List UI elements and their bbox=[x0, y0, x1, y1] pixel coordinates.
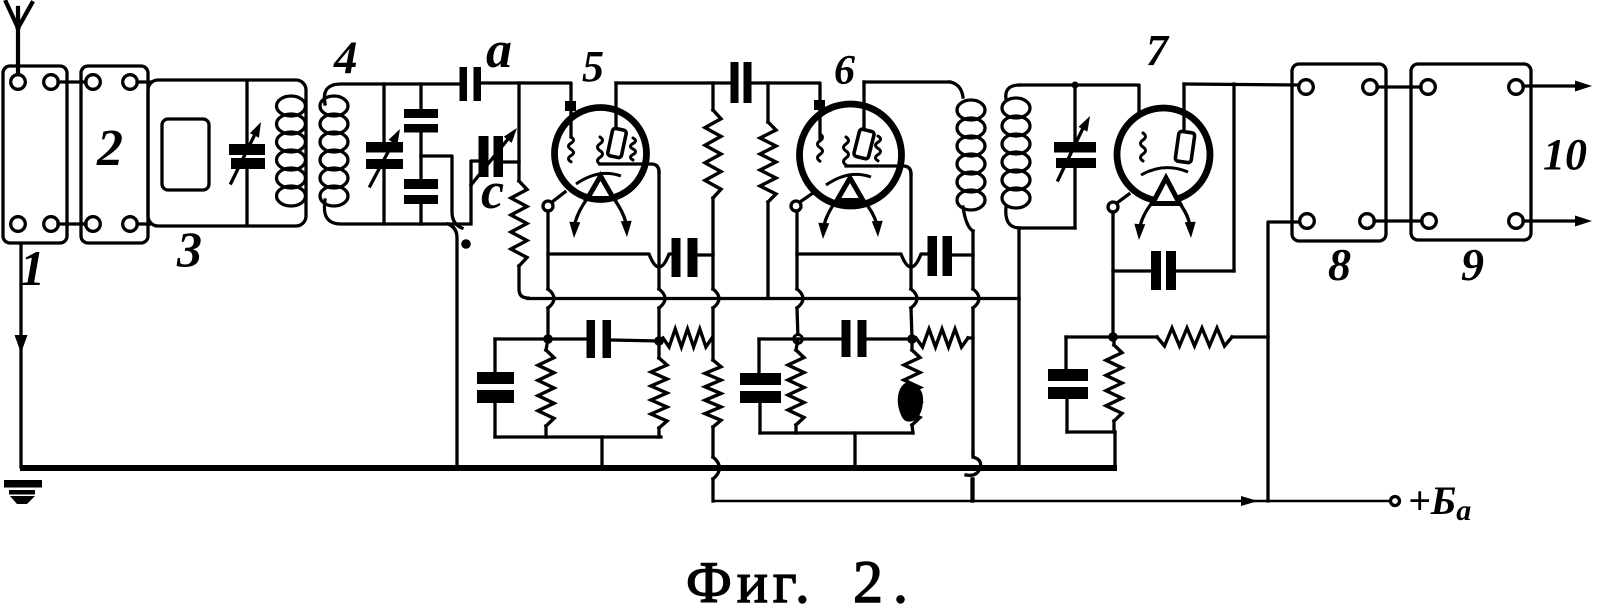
wire electrolytic 3 top lead bbox=[1064, 337, 1067, 369]
hop x659 over grid-return line bbox=[659, 289, 665, 308]
bias resistor R10 lead bbox=[1112, 337, 1115, 345]
wire bias line stage1 left bbox=[495, 337, 587, 340]
block 9 terminal top-right bbox=[1509, 80, 1524, 95]
plate load resistor R2 top lead bbox=[711, 83, 714, 110]
capacitor a right plate bbox=[474, 67, 482, 101]
secondary top rail bbox=[1020, 85, 1139, 116]
resistor R5 bottom lead bbox=[657, 428, 660, 437]
resistor R5 lead bbox=[657, 341, 660, 358]
wire primary return down bbox=[971, 231, 974, 289]
junction dot secondary top bbox=[1072, 82, 1079, 89]
wire grid line tap down bbox=[517, 83, 520, 181]
wire block2-block3 top bbox=[137, 80, 150, 83]
coupling capacitor C7 left plate bbox=[731, 62, 739, 103]
hop over grid-return line (x973) bbox=[973, 289, 979, 308]
capacitor C13 bottom plate bbox=[477, 390, 514, 403]
hop x713 over ground bus bbox=[713, 457, 720, 479]
variable capacitor C4 top plate bbox=[366, 142, 403, 153]
bypass capacitor C9 left plate bbox=[1151, 251, 1161, 290]
bypass capacitor C10 top plate bbox=[1048, 369, 1088, 381]
variable capacitor C4 arrow bbox=[370, 137, 396, 186]
wire primary return to +B bus bbox=[971, 479, 974, 501]
svg-text:9: 9 bbox=[1461, 239, 1484, 290]
svg-text:10: 10 bbox=[1543, 130, 1587, 179]
transformer secondary top lead bbox=[1006, 85, 1020, 99]
wire cathode tube6 down 2 bbox=[797, 308, 798, 339]
tube V6 middle electrode bbox=[844, 137, 849, 165]
output wire bottom bbox=[1523, 219, 1580, 222]
tube V6 plate lead out bbox=[846, 166, 911, 174]
tube V6 cathode terminal bbox=[791, 201, 801, 211]
tube V5 anode plate bbox=[607, 128, 627, 158]
wire variable capacitor branch block 3 top bbox=[245, 82, 248, 145]
wire anode branch tube5 down 2 bbox=[657, 308, 660, 341]
variable capacitor C8 arrow bbox=[1058, 124, 1085, 180]
wire cap c left lead bbox=[471, 161, 479, 222]
capacitor C16 top plate bbox=[740, 373, 781, 385]
coupling capacitor C12 left plate bbox=[587, 320, 596, 358]
block 9 terminal top-left bbox=[1421, 80, 1436, 95]
tube V5 filament leg left bbox=[575, 199, 588, 227]
tube V6 filament leg left bbox=[824, 201, 837, 228]
trimmer capacitor c left plate bbox=[479, 136, 489, 177]
capacitor C14 right plate bbox=[943, 236, 953, 276]
coupling capacitor C12 right plate bbox=[603, 320, 612, 358]
tube V5 cathode terminal bbox=[543, 201, 553, 211]
wire bias line stage2 right bbox=[866, 337, 912, 340]
cathode resistor R8 bbox=[788, 350, 804, 425]
block 3 tuned circuit box bbox=[148, 80, 306, 226]
tube V7 anode plate bbox=[1175, 131, 1195, 163]
block 4 top rail bbox=[324, 84, 460, 104]
wire C11 right lead bbox=[698, 253, 714, 256]
resistor R9 bottom lead bbox=[912, 425, 913, 433]
wire stage2 network to ground bus bbox=[853, 433, 856, 466]
svg-text:3: 3 bbox=[176, 221, 202, 277]
block 9 bbox=[1411, 64, 1531, 240]
block 8 terminal top-left bbox=[1299, 80, 1314, 95]
wire anode branch tube6 down 2 bbox=[911, 308, 912, 339]
decoupling resistor R11 right lead bbox=[1232, 335, 1268, 338]
wire var cap branch block4 bottom bbox=[382, 169, 385, 224]
tube V5 right electrode bbox=[631, 138, 636, 160]
wire block1-block2 bottom bbox=[58, 222, 86, 225]
cathode resistor R4 bbox=[538, 350, 554, 426]
svg-text:8: 8 bbox=[1328, 239, 1351, 290]
wire primary return down 2 bbox=[971, 308, 974, 457]
tube V6 filament tip triangle bbox=[837, 178, 863, 201]
svg-text:6: 6 bbox=[834, 48, 855, 94]
resistor R5 bbox=[651, 358, 667, 428]
block 8 terminal bottom-right bbox=[1360, 214, 1375, 229]
transformer primary bottom lead bbox=[963, 207, 973, 231]
tube V7 cathode terminal bbox=[1108, 202, 1118, 212]
tube V6 envelope bbox=[800, 104, 902, 206]
transformer primary top lead bbox=[950, 82, 963, 97]
wire cathode tube5 down bbox=[546, 211, 549, 289]
svg-text:2: 2 bbox=[96, 120, 123, 177]
tube V5 envelope bbox=[555, 108, 647, 200]
variable capacitor C3 bottom plate bbox=[231, 158, 265, 169]
cathode line stage1 with hop bbox=[548, 254, 671, 267]
block 2 terminal top-left bbox=[86, 75, 101, 90]
wire between fixed caps bbox=[419, 132, 422, 179]
wire variable capacitor branch block 3 bottom bbox=[245, 168, 248, 224]
bypass capacitor C9 right plate bbox=[1166, 251, 1176, 290]
tube V7 filament arc bbox=[1141, 168, 1188, 175]
block 1 terminal bottom-right bbox=[44, 217, 59, 232]
grid rail tube6 bbox=[752, 83, 820, 138]
resistor R9 bbox=[904, 350, 920, 425]
wire var cap branch block4 top bbox=[382, 84, 385, 142]
wire block8 lower terminal to +B bus bbox=[1268, 222, 1299, 501]
wire electrolytic 2 bottom lead bbox=[758, 403, 761, 433]
tube V5 filament arc bbox=[576, 173, 621, 184]
tube V6 anode wire bbox=[862, 82, 865, 131]
fixed capacitor C6 top plate bbox=[404, 179, 438, 189]
grid leak resistor R1 bbox=[511, 181, 527, 266]
grid seal square tube 6 bbox=[814, 100, 825, 110]
secondary coil L4 bbox=[1002, 98, 1030, 118]
tube V5 filament leg right bbox=[614, 199, 627, 227]
svg-text:4: 4 bbox=[333, 32, 358, 84]
fixed capacitor C5 bottom plate bbox=[404, 124, 438, 133]
wire mid-tap to right bbox=[421, 156, 462, 228]
cathode resistor R4 lead bbox=[546, 339, 548, 350]
tube V5 grid electrode bbox=[569, 137, 574, 162]
tube V7 anode wire bbox=[1182, 84, 1185, 134]
variable capacitor C8 bottom plate bbox=[1056, 158, 1096, 168]
decoupling resistor R11 lead bbox=[1113, 335, 1157, 338]
wire secondary return to ground bus bbox=[1017, 228, 1020, 466]
coupling capacitor C7 right plate bbox=[744, 62, 752, 103]
wire bias network 3 top bbox=[1066, 335, 1113, 338]
svg-text:5: 5 bbox=[582, 42, 604, 91]
junction dot block4 bottom bbox=[461, 239, 471, 249]
hop x548 over grid-return line bbox=[548, 289, 554, 308]
tube V6 grid electrode bbox=[818, 134, 823, 161]
svg-text:Фиг.: Фиг. bbox=[686, 550, 815, 606]
wire bias network 3 bottom bbox=[1067, 430, 1115, 433]
arrow on +B bus bbox=[1241, 496, 1258, 506]
wire anode branch tube6 down bbox=[909, 174, 912, 289]
ground symbol bbox=[4, 480, 42, 488]
capacitor a left plate bbox=[460, 67, 468, 101]
wire C9 left lead bbox=[1113, 269, 1151, 272]
wire R3 bottom to grid-return line bbox=[766, 202, 769, 298]
grid resistor R3 lead bbox=[766, 83, 769, 122]
wire C9 right lead bbox=[1176, 269, 1234, 272]
wire electrolytic 1 bottom lead bbox=[493, 403, 496, 437]
detector element in block 3 bbox=[162, 119, 209, 190]
wire fixed caps branch bottom bbox=[419, 204, 422, 224]
wire anode rail tap down bbox=[1232, 84, 1235, 271]
block 8 bbox=[1292, 64, 1386, 241]
tube V5 filament tip triangle bbox=[588, 176, 614, 199]
tube V7 filament leg right bbox=[1180, 204, 1191, 229]
wire stage1 network to ground bus bbox=[600, 437, 603, 466]
wire R12 right lead bbox=[968, 336, 973, 339]
coil L1 block 3 bbox=[277, 96, 306, 116]
tube V5 middle electrode bbox=[598, 137, 603, 164]
tube V7 filament tip triangle bbox=[1153, 178, 1180, 204]
junction dot coupling 2 bbox=[907, 334, 917, 344]
hop x911 over grid-return line bbox=[911, 289, 917, 308]
wire block1-block2 top bbox=[58, 80, 86, 83]
cathode resistor R4 bottom lead bbox=[544, 426, 547, 437]
hop x797 over grid-return line bbox=[797, 289, 803, 308]
tube V6 anode plate bbox=[853, 129, 874, 160]
block 1 bbox=[3, 66, 67, 243]
wire cathode tube5 down 2 bbox=[546, 308, 549, 339]
variable capacitor C3 top plate bbox=[229, 144, 265, 155]
resistor R12 (horizontal) bbox=[916, 329, 968, 347]
decoupling resistor R11 bbox=[1157, 328, 1232, 346]
tube V7 grid electrode bbox=[1141, 133, 1146, 161]
tube V5 anode wire bbox=[614, 83, 617, 130]
antenna bbox=[6, 2, 32, 74]
junction (open) cathode network 2 bbox=[794, 335, 803, 344]
variable capacitor C3 arrow bbox=[231, 130, 257, 183]
fixed capacitor C6 bottom plate bbox=[404, 195, 438, 204]
block 1 terminal top-right bbox=[44, 75, 59, 90]
bias resistor R10 bottom lead bbox=[1112, 421, 1115, 432]
bypass capacitor C10 bottom plate bbox=[1048, 387, 1088, 399]
wire block4 to ground bus bbox=[448, 224, 457, 466]
svg-text:2.: 2. bbox=[853, 549, 918, 606]
ground bus (thick) bbox=[20, 465, 1117, 471]
wire cathode tube7 down bbox=[1111, 212, 1114, 337]
+B bus bbox=[713, 500, 1391, 503]
wire network 3 to ground bus end bbox=[1113, 432, 1116, 466]
wire electrolytic 1 top lead bbox=[493, 339, 496, 372]
grid resistor R3 bbox=[760, 122, 776, 202]
tube V7 envelope bbox=[1117, 108, 1210, 201]
svg-text:7: 7 bbox=[1146, 26, 1170, 75]
bias resistor R10 bbox=[1106, 345, 1122, 421]
block 2 terminal bottom-right bbox=[123, 217, 138, 232]
capacitor C11 right plate bbox=[688, 238, 698, 277]
anode rail tube7 bbox=[1184, 84, 1299, 85]
grid seal square tube 5 bbox=[565, 101, 576, 111]
arrow on ground lead bbox=[15, 335, 28, 353]
wire cap c right lead bbox=[503, 160, 519, 163]
secondary bottom rail bbox=[1019, 226, 1075, 229]
wire R7 bottom lead bbox=[711, 427, 714, 457]
block 4 bottom rail bbox=[324, 200, 471, 224]
junction dot coupling 1 bbox=[654, 336, 664, 346]
ink blot artifact bbox=[898, 382, 923, 421]
tube V6 right electrode bbox=[876, 136, 881, 161]
tube V7 filament leg left bbox=[1140, 204, 1152, 229]
tube V5 plate lead out bbox=[600, 164, 659, 172]
wire block2-block3 bottom bbox=[137, 222, 150, 225]
anode rail tube6 bbox=[864, 80, 950, 83]
cathode line stage2 with hop bbox=[797, 254, 927, 267]
hop x713 over grid-return line bbox=[713, 289, 719, 308]
block 1 terminal bottom-left bbox=[11, 217, 26, 232]
output wire top bbox=[1523, 84, 1580, 87]
block 2 terminal top-right bbox=[123, 75, 138, 90]
plate load resistor R2 bbox=[705, 110, 721, 198]
variable capacitor C4 bottom plate bbox=[366, 159, 403, 169]
block 8 terminal bottom-left bbox=[1300, 214, 1315, 229]
block 2 bbox=[81, 66, 148, 243]
capacitor C11 left plate bbox=[672, 238, 681, 277]
block 8 terminal top-right bbox=[1363, 80, 1378, 95]
coupling capacitor C15 right plate bbox=[858, 320, 867, 357]
block 9 terminal bottom-left bbox=[1422, 214, 1437, 229]
wire electrolytic 2 top lead bbox=[757, 339, 760, 373]
svg-text:a: a bbox=[486, 22, 512, 79]
ground lead from antenna circuit bbox=[19, 244, 22, 467]
cathode resistor R8 bottom lead bbox=[794, 425, 797, 433]
block 2 terminal bottom-left bbox=[86, 217, 101, 232]
wire grid line tube5 bbox=[481, 83, 571, 137]
variable capacitor C8 top plate bbox=[1054, 142, 1096, 153]
anode rail tube5 bbox=[616, 81, 731, 84]
svg-text:1: 1 bbox=[20, 240, 45, 296]
junction dot cathode network 1 bbox=[543, 334, 553, 344]
wire electrolytic 3 bottom lead bbox=[1065, 399, 1068, 432]
block 9 terminal bottom-right bbox=[1509, 214, 1524, 229]
wire bias network 1 bottom bbox=[495, 435, 661, 438]
+B terminal bbox=[1391, 497, 1400, 506]
trimmer capacitor c arrow bbox=[471, 134, 512, 185]
resistor R9 lead bbox=[910, 339, 913, 350]
wire bias line stage1 right bbox=[611, 340, 659, 341]
block 1 terminal top-left bbox=[11, 75, 26, 90]
trimmer capacitor c right plate bbox=[494, 136, 504, 177]
wire cathode tube6 down bbox=[795, 211, 798, 289]
cathode resistor R8 lead bbox=[796, 339, 798, 350]
wire bias network 2 bottom bbox=[760, 431, 913, 434]
wire R2 bottom bbox=[711, 198, 714, 289]
transformer primary coil L3 bbox=[957, 100, 985, 120]
svg-text:c: c bbox=[481, 163, 504, 220]
wire R7 to +B bus bbox=[711, 479, 714, 501]
transformer secondary bottom lead bbox=[1006, 207, 1020, 228]
hop over ground bus (x973) bbox=[966, 452, 981, 475]
wire R7 top lead bbox=[711, 308, 714, 360]
wire var cap branch secondary bottom bbox=[1073, 168, 1076, 228]
wire block8-block9 top bbox=[1377, 85, 1421, 88]
wire block8-block9 bottom bbox=[1374, 219, 1422, 222]
wire var cap branch secondary top bbox=[1073, 85, 1076, 142]
wire C14 right lead bbox=[952, 253, 973, 256]
capacitor C14 left plate bbox=[928, 236, 938, 276]
coil L2 block 4 bbox=[320, 96, 348, 116]
capacitor C13 top plate bbox=[477, 372, 514, 384]
resistor R6 (horizontal) bbox=[663, 329, 712, 347]
tube V6 filament leg right bbox=[864, 201, 878, 228]
coupling capacitor C15 left plate bbox=[842, 320, 851, 357]
wire bias line stage2 left bbox=[759, 337, 841, 340]
tube V6 filament arc bbox=[826, 174, 871, 185]
capacitor C16 bottom plate bbox=[740, 391, 781, 403]
decoupling resistor R7 bbox=[705, 360, 721, 427]
grid-return line (long horizontal) bbox=[528, 297, 1019, 300]
wire R1 bottom to grid-return line bbox=[519, 266, 528, 298]
wire fixed caps branch top bbox=[419, 84, 422, 109]
fixed capacitor C5 top plate bbox=[404, 109, 438, 118]
junction dot cathode network 3 bbox=[1108, 332, 1118, 342]
wire anode branch tube5 down bbox=[657, 172, 660, 289]
